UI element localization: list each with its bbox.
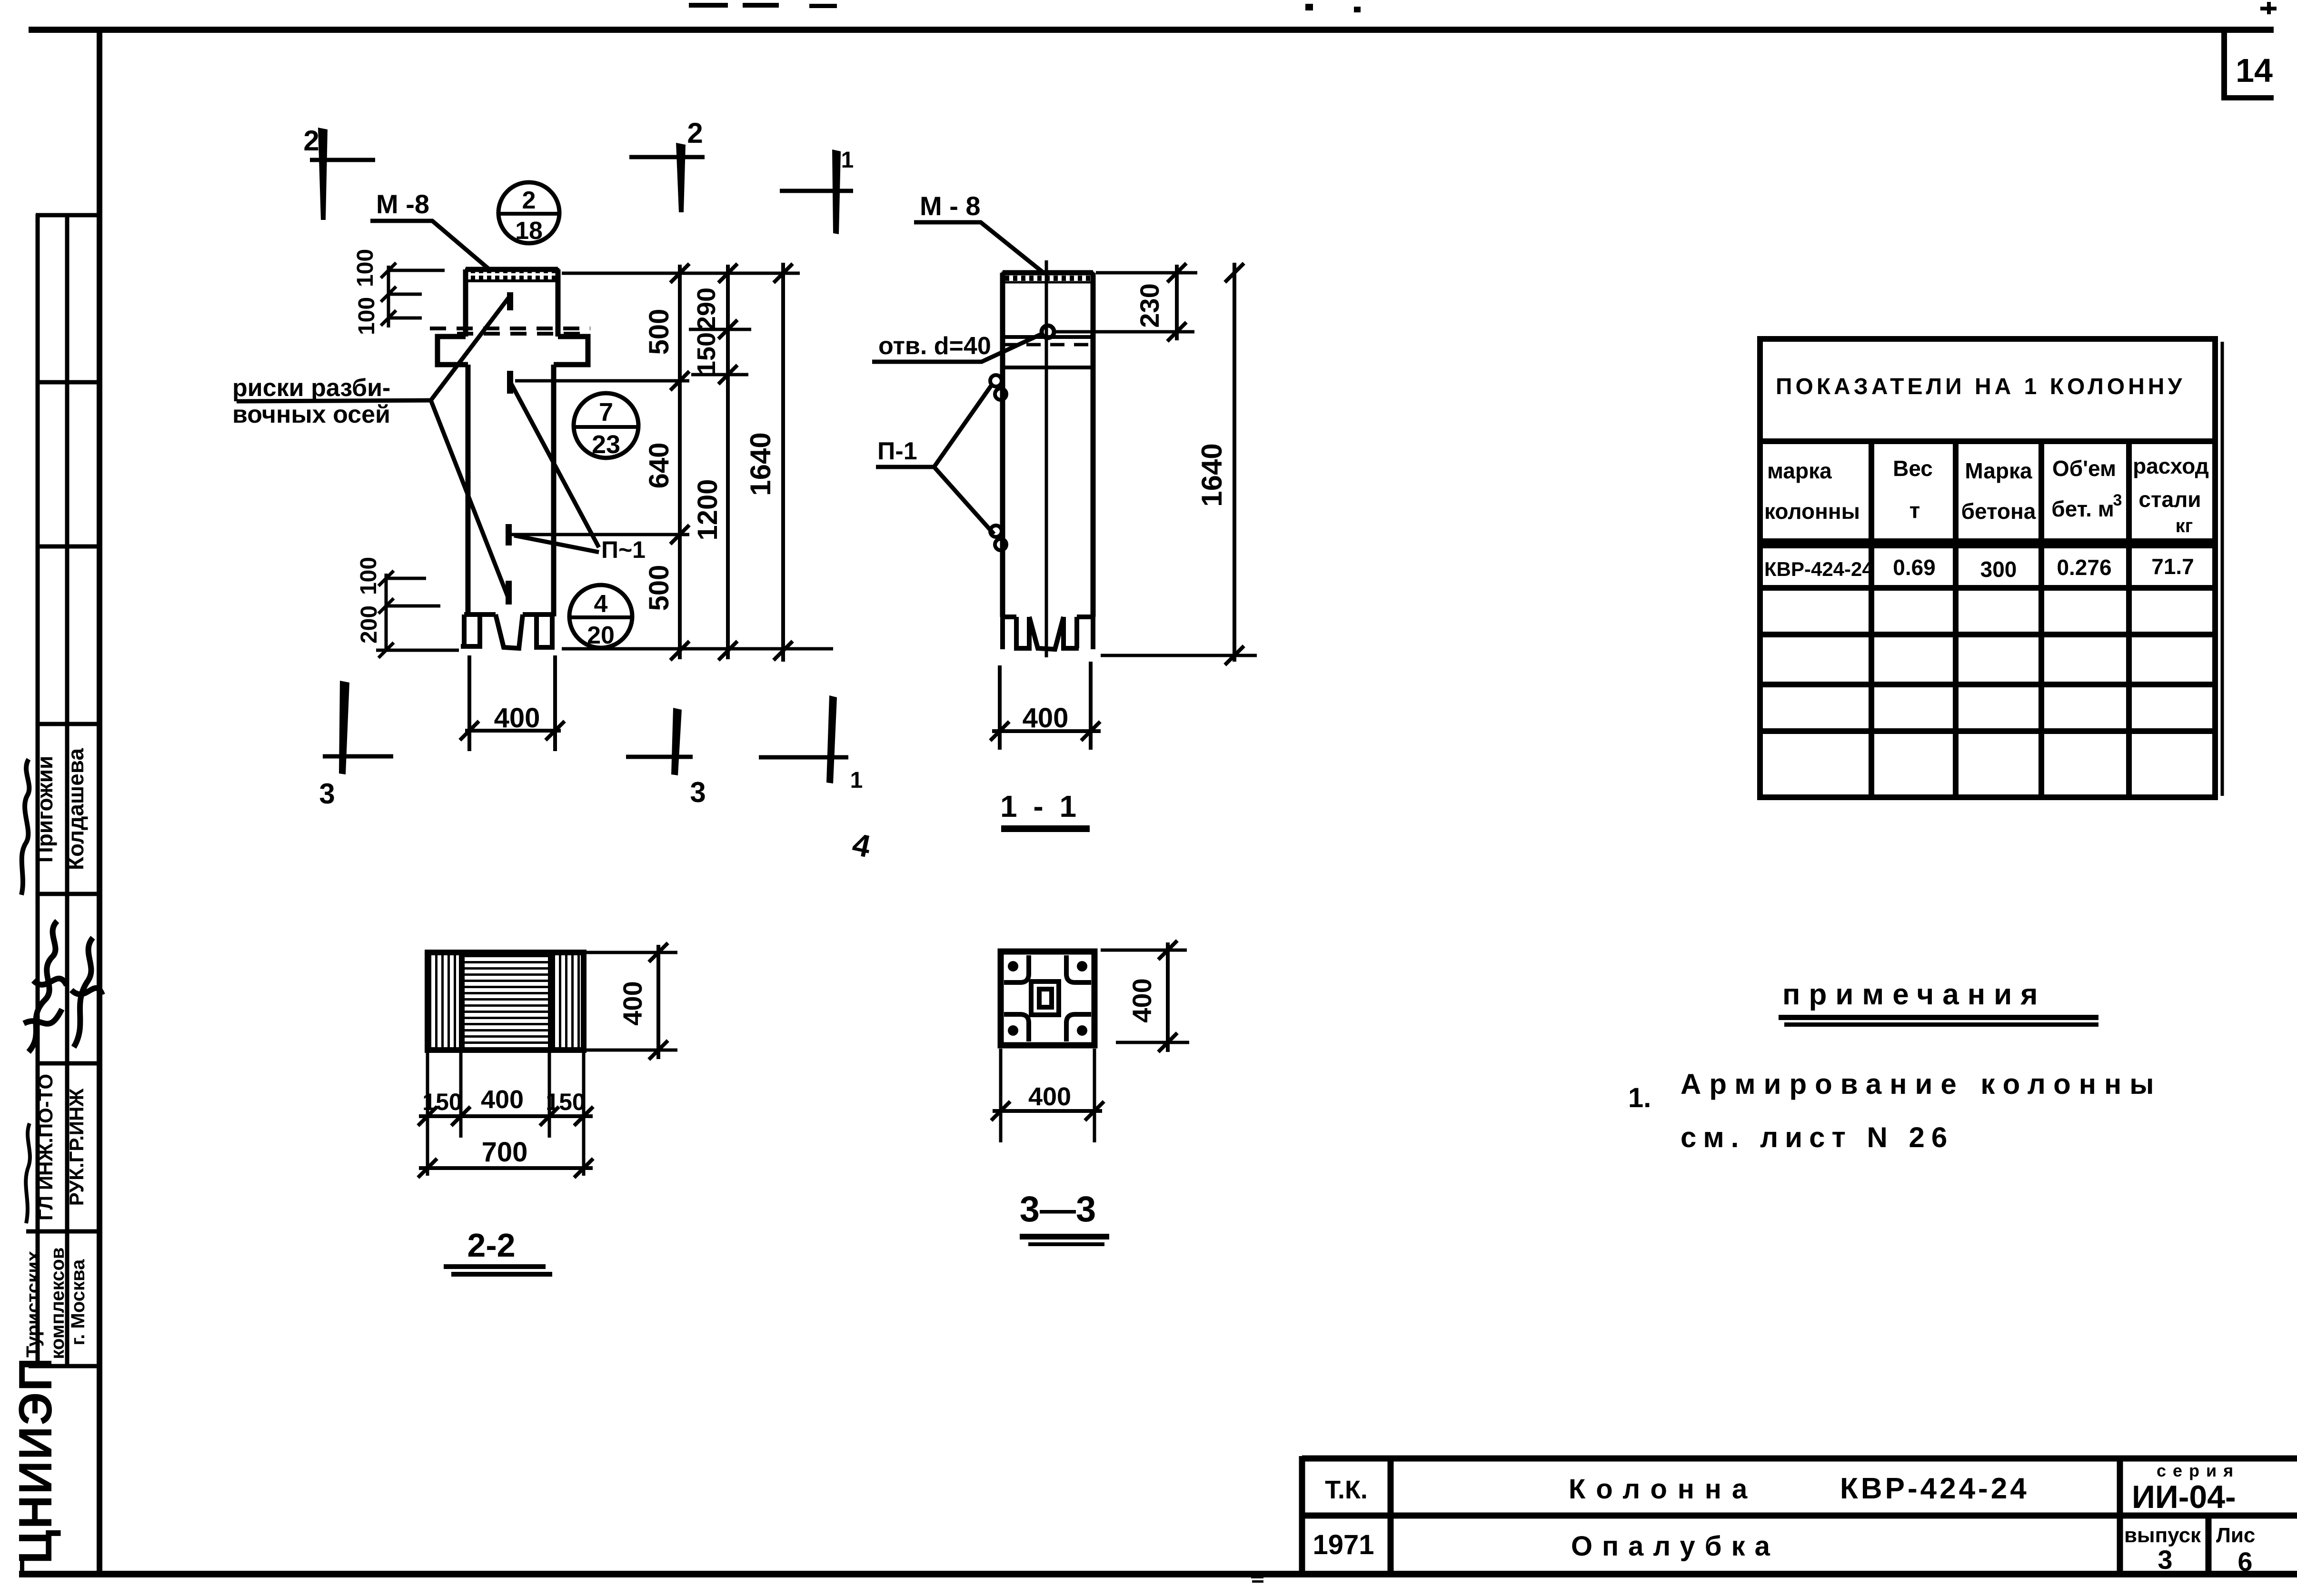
- stray = mark: [1251, 1576, 1263, 1578]
- П-1 underline + leaders to loops: [876, 384, 994, 534]
- svg-text:300: 300: [1980, 557, 2017, 582]
- svg-text:М - 8: М - 8: [920, 191, 981, 221]
- table header col2: [1893, 456, 1933, 523]
- sidebar org: туристских комплексов г. Москва: [23, 1247, 89, 1359]
- svg-text:23: 23: [592, 430, 620, 459]
- svg-text:1.: 1.: [1628, 1082, 1651, 1113]
- column corbel (console) outline: [438, 337, 588, 365]
- column bottom notch profile: [461, 615, 555, 648]
- svg-text:П~1: П~1: [601, 536, 646, 563]
- svg-text:400: 400: [1023, 703, 1069, 734]
- svg-text:бетона: бетона: [1961, 499, 2036, 524]
- axis mark (riska) 1: [507, 292, 513, 310]
- svg-text:1971: 1971: [1313, 1529, 1374, 1560]
- svg-text:400: 400: [494, 703, 540, 734]
- svg-text:14: 14: [2236, 52, 2273, 89]
- section mark 3 left: [319, 681, 393, 810]
- view label 3-3: [1020, 1189, 1109, 1246]
- svg-text:1640: 1640: [745, 432, 776, 496]
- svg-text:выпуск: выпуск: [2124, 1524, 2201, 1547]
- svg-text:400: 400: [1127, 978, 1157, 1022]
- svg-text:примечания: примечания: [1782, 978, 2046, 1011]
- 2-2 right hatched strip: [552, 955, 581, 1047]
- svg-text:ПОКАЗАТЕЛИ НА 1 КОЛОННУ: ПОКАЗАТЕЛИ НА 1 КОЛОННУ: [1776, 374, 2185, 399]
- svg-text:РУК.ГР.ИНЖ: РУК.ГР.ИНЖ: [65, 1088, 88, 1206]
- sidebar signature 1: [24, 921, 67, 1052]
- svg-text:КВР-424-24: КВР-424-24: [1840, 1472, 2029, 1505]
- 3-3 dim 400 vertical: [1158, 941, 1177, 1052]
- svg-text:150: 150: [692, 332, 721, 375]
- svg-text:4: 4: [594, 590, 608, 618]
- bottom dim 400 view2: [990, 662, 1101, 750]
- dimension chain C (1640 overall): [774, 263, 793, 662]
- svg-text:Вес: Вес: [1893, 456, 1933, 481]
- svg-text:серия: серия: [2157, 1461, 2240, 1480]
- svg-text:230: 230: [1134, 283, 1164, 327]
- svg-text:Колонна: Колонна: [1569, 1474, 1758, 1505]
- 1-1 hidden dashed line: [1003, 343, 1093, 347]
- 3-3 dim 400 bottom: [991, 1101, 1104, 1120]
- table header col3: [1961, 458, 2036, 524]
- section mark 3 right: [626, 708, 706, 808]
- svg-text:3: 3: [690, 776, 706, 808]
- svg-text:290: 290: [692, 287, 721, 330]
- column head outline: [466, 269, 558, 337]
- 2-2 dim 700: [418, 1159, 593, 1178]
- 2-2 dim 400 vertical: [649, 943, 668, 1060]
- 1-1 horizontal lines (corbel levels): [1003, 337, 1093, 367]
- svg-text:1640: 1640: [1196, 443, 1228, 506]
- 1-1 bottom notch profile: [1003, 617, 1093, 649]
- mini dims bottom-left (100,200): [376, 571, 459, 658]
- 3-3 extension verticals below: [1001, 1049, 1094, 1142]
- section mark 1 top: [780, 148, 854, 234]
- svg-text:2-2: 2-2: [467, 1227, 515, 1264]
- svg-text:Опалубка: Опалубка: [1571, 1531, 1780, 1562]
- table header col5: [2133, 454, 2209, 536]
- svg-text:2: 2: [687, 117, 703, 149]
- svg-text:см. лист N 26: см. лист N 26: [1680, 1121, 1954, 1153]
- svg-text:200: 200: [357, 605, 382, 644]
- svg-text:1 - 1: 1 - 1: [1000, 789, 1080, 823]
- svg-text:ИИ-04-: ИИ-04-: [2132, 1479, 2236, 1515]
- svg-text:7: 7: [599, 398, 613, 426]
- svg-text:ГЛ ИНЖ.ПО-ТО: ГЛ ИНЖ.ПО-ТО: [34, 1074, 57, 1220]
- column top hatch band M-8: [467, 269, 558, 281]
- 3-3 corner detail BR: [1066, 1014, 1091, 1041]
- svg-text:Марка: Марка: [1965, 458, 2032, 483]
- 2-2 middle hatched area: [465, 955, 549, 1047]
- 2-2 outline: [428, 952, 584, 1050]
- svg-text:20: 20: [587, 622, 615, 649]
- svg-text:Армирование колонны: Армирование колонны: [1680, 1068, 2162, 1100]
- svg-text:КВР-424-24: КВР-424-24: [1764, 558, 1873, 580]
- table header col1: [1764, 458, 1860, 524]
- svg-text:отв. d=40: отв. d=40: [878, 332, 991, 360]
- svg-text:3: 3: [319, 778, 335, 810]
- sidebar stamp table: [26, 214, 99, 1366]
- 3-3 corner detail BL: [1004, 1014, 1029, 1041]
- lifting loop П-1 upper: [990, 375, 1006, 400]
- 3-3 center core: [1031, 981, 1059, 1015]
- svg-text:71.7: 71.7: [2151, 554, 2194, 579]
- bottom dim 400 view1: [460, 655, 565, 751]
- svg-text:3: 3: [2158, 1545, 2172, 1575]
- extension lines view1: [506, 273, 833, 649]
- leader lines П-1 elevation: [509, 379, 599, 552]
- table grid: [1760, 339, 2222, 797]
- svg-text:500: 500: [644, 309, 675, 355]
- М-8 underline + leader view2: [914, 222, 1044, 273]
- svg-text:Колдашева: Колдашева: [63, 748, 88, 870]
- svg-text:т: т: [1909, 498, 1920, 523]
- svg-text:0.276: 0.276: [2057, 555, 2111, 580]
- svg-text:3—3: 3—3: [1020, 1189, 1096, 1229]
- table header col4: [2051, 456, 2122, 521]
- lifting loop П-1 lower: [990, 525, 1006, 550]
- section mark 2 left: [303, 125, 375, 220]
- svg-text:400: 400: [617, 981, 647, 1025]
- 1-1 center axis line: [1045, 260, 1048, 657]
- frame top border: [29, 27, 2274, 33]
- view label 1-1: [1000, 789, 1090, 832]
- svg-text:марка: марка: [1767, 458, 1832, 483]
- dimension chain B (290,150,1200): [718, 264, 737, 660]
- svg-text:П-1: П-1: [877, 437, 917, 465]
- svg-text:Об'ем: Об'ем: [2052, 456, 2116, 481]
- mini dims top-left (100,100): [381, 263, 445, 327]
- sidebar signature 2: [71, 938, 102, 1047]
- circle mark 2/18: [498, 182, 559, 245]
- circle mark 7/23: [574, 393, 638, 459]
- svg-text:150: 150: [422, 1089, 462, 1115]
- svg-text:М -8: М -8: [376, 189, 429, 219]
- top edge stray dashes: [689, 2, 2277, 14]
- sidebar scrawl left of names: [21, 759, 29, 895]
- axis mark (riska) 2: [507, 371, 513, 394]
- svg-text:Пригожий: Пригожий: [32, 756, 57, 863]
- 2-2 extension lines right: [587, 952, 677, 1050]
- svg-text:риски разби-: риски разби-: [232, 374, 390, 402]
- circle mark 4/20: [569, 585, 632, 649]
- view label 2-2: [444, 1227, 552, 1277]
- svg-text:1: 1: [850, 768, 863, 793]
- svg-text:400: 400: [1028, 1082, 1071, 1111]
- svg-text:комплексов: комплексов: [47, 1247, 68, 1359]
- 1-1 hole отв. d=40: [1042, 326, 1054, 338]
- hidden dashed lines at corbel top: [430, 328, 590, 334]
- section mark 1 bottom: [759, 695, 863, 793]
- 2-2 left hatched strip: [430, 955, 462, 1047]
- frame left inner vertical: [97, 27, 102, 1575]
- leader line from label to risks: [237, 296, 510, 596]
- svg-text:Лис: Лис: [2216, 1524, 2255, 1547]
- svg-text:вочных осей: вочных осей: [232, 401, 390, 428]
- label риски разбивочных осей: [232, 374, 390, 428]
- svg-text:700: 700: [482, 1137, 528, 1168]
- dimension chain A (500,640,500): [670, 264, 689, 660]
- svg-text:150: 150: [546, 1089, 585, 1115]
- svg-text:100: 100: [353, 249, 378, 287]
- axis mark (riska) 4: [506, 581, 512, 605]
- dimension 1640 view2: [1225, 263, 1244, 665]
- svg-text:стали: стали: [2138, 487, 2201, 512]
- svg-text:6: 6: [2237, 1546, 2252, 1576]
- svg-text:640: 640: [644, 443, 675, 489]
- svg-text:Туристских: Туристских: [23, 1251, 44, 1358]
- 2-2 extension verticals below: [428, 1053, 584, 1176]
- отв underline + leader: [872, 335, 1040, 362]
- svg-text:100: 100: [354, 297, 379, 335]
- notes heading underline: [1779, 1015, 2098, 1020]
- svg-text:Т.К.: Т.К.: [1325, 1476, 1368, 1504]
- column shaft outline: [468, 365, 554, 616]
- table data row: [1764, 554, 2194, 582]
- 3-3 corner detail TL: [1004, 955, 1029, 982]
- M-8 underline and leader: [370, 221, 489, 269]
- extension lines view2: [1055, 273, 1257, 655]
- 1-1 body outline: [1003, 273, 1093, 617]
- svg-text:бет. м: бет. м: [2051, 496, 2114, 521]
- svg-text:500: 500: [644, 565, 675, 611]
- svg-text:2: 2: [303, 125, 319, 157]
- svg-text:100: 100: [356, 557, 381, 595]
- page number box: [2221, 30, 2274, 100]
- svg-text:колонны: колонны: [1764, 499, 1860, 524]
- svg-text:1: 1: [841, 148, 854, 173]
- svg-text:1200: 1200: [692, 479, 723, 540]
- 3-3 extension lines right: [1101, 950, 1189, 1042]
- svg-text:кг: кг: [2176, 515, 2193, 536]
- svg-text:0.69: 0.69: [1893, 555, 1936, 580]
- svg-text:400: 400: [481, 1085, 524, 1114]
- 1-1 top hatch band: [1003, 273, 1093, 282]
- title block grid: [1302, 1456, 2297, 1574]
- svg-text:г. Москва: г. Москва: [68, 1259, 89, 1345]
- svg-text:3: 3: [2113, 491, 2122, 509]
- section mark 2 right: [629, 117, 705, 212]
- svg-text:расход: расход: [2133, 454, 2209, 478]
- svg-text:18: 18: [515, 217, 543, 245]
- 2-2 dim line 150/400/150: [418, 1107, 593, 1126]
- 3-3 corner detail TR: [1066, 955, 1091, 982]
- svg-text:2: 2: [522, 187, 536, 214]
- sidebar scrawl above roles: [26, 1123, 30, 1223]
- frame bottom border: [19, 1571, 2297, 1577]
- dimension 230: [1167, 263, 1186, 341]
- 3-3 outline square: [1001, 952, 1094, 1045]
- svg-text:ЦНИИЭП: ЦНИИЭП: [9, 1357, 61, 1564]
- axis mark (riska) 3: [506, 524, 512, 545]
